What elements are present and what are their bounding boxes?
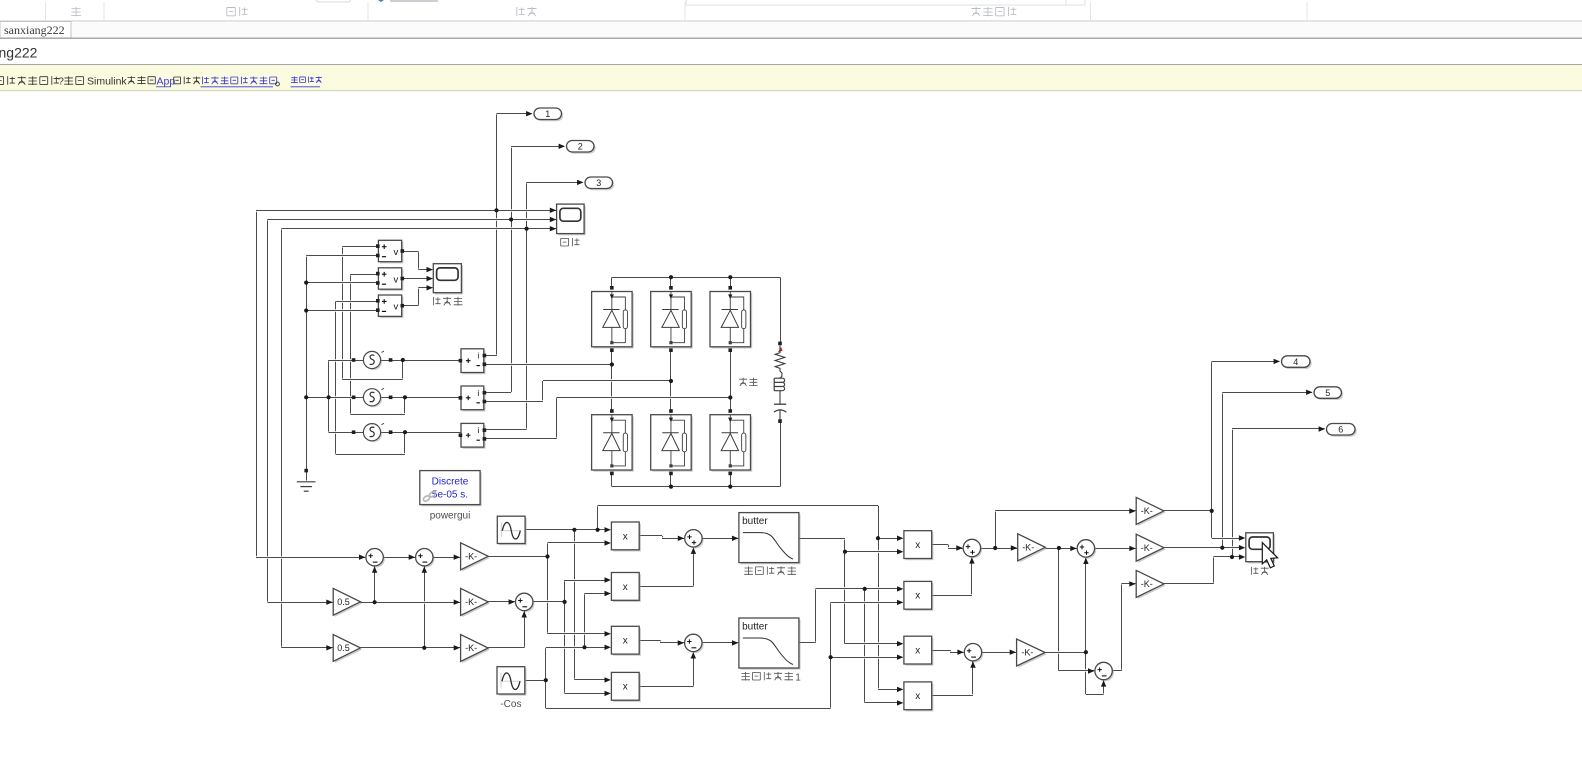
sum C1: [963, 539, 982, 558]
arrow gainK5 in: [1010, 650, 1016, 655]
wire port6 horizontal: [1232, 427, 1325, 430]
ground symbol: [297, 469, 316, 491]
junction gainK5 out: [1084, 650, 1088, 654]
wire VM2+ vertical: [350, 274, 352, 414]
wire AC1 out: [381, 359, 461, 362]
outport 2: [567, 141, 596, 154]
wire sumA1 feedback vertical: [374, 566, 376, 602]
wire VM2 plus lead: [350, 273, 376, 276]
wire AC2 loop up: [404, 397, 406, 414]
wire sumA3 out: [533, 600, 565, 603]
wire port1 vertical: [496, 114, 498, 356]
wire gainKtop out: [1164, 509, 1212, 512]
wire sumD2 in: [1059, 669, 1094, 672]
wire prod8 in1 lead: [878, 688, 900, 691]
arrow scope-voltage in3: [427, 285, 433, 290]
arrow prod4 in1: [605, 677, 611, 682]
svg-text:App: App: [157, 76, 176, 88]
current measurement i1: [459, 349, 487, 374]
wire prod8 in2 lead: [865, 701, 901, 704]
arrow gainK6 in: [1129, 581, 1135, 586]
arrow scope-voltage in2: [427, 276, 433, 281]
svg-text:i: i: [477, 425, 479, 435]
wire prod4 in1 lead: [574, 678, 607, 681]
svg-text:-K-: -K-: [465, 643, 477, 653]
product 1: [611, 522, 640, 552]
product 6: [904, 581, 933, 610]
arrow sumD2 up: [1101, 680, 1106, 686]
svg-text:5: 5: [1325, 388, 1330, 398]
arrow prod8 in1: [897, 687, 903, 692]
arrow gain05a in: [326, 600, 332, 605]
wire prod2 in2 lead: [585, 592, 608, 595]
arrow sumA3 up: [522, 611, 527, 617]
wire gainK2-sumA3: [488, 600, 515, 603]
diode block D3: [710, 286, 752, 352]
outport 4: [1282, 356, 1312, 369]
svg-text:x: x: [623, 682, 628, 693]
arrow scope-jibo in2: [1239, 545, 1245, 550]
arrow sumD1 up: [1083, 558, 1088, 564]
svg-text:Simulink: Simulink: [87, 76, 127, 88]
wire AC3 out: [381, 431, 461, 434]
wire port3 vertical: [526, 182, 528, 429]
junction prod3in2: [582, 645, 586, 649]
arrow into outport2: [559, 144, 565, 149]
outport 1: [534, 108, 563, 121]
wire sumD1-gainKmid: [1095, 547, 1136, 550]
svg-text:5e-05 s.: 5e-05 s.: [432, 490, 468, 501]
arrow sumA2 up: [422, 566, 427, 572]
wire VM3 out seg: [402, 304, 419, 307]
wire port3 horizontal: [527, 181, 583, 184]
wire rect top bus drop2: [670, 277, 672, 288]
arrow gain05b in: [326, 645, 332, 650]
wire sumA2-gainK1: [433, 556, 460, 559]
svg-text:-K-: -K-: [1141, 579, 1153, 589]
junction source-bus/AC2: [327, 395, 331, 399]
wire prod8 up vertical: [972, 661, 974, 696]
label xiangdianya: [434, 297, 463, 306]
outport 5: [1314, 387, 1343, 400]
wire prod4 out: [639, 685, 693, 688]
junction gainK1 out: [545, 554, 549, 558]
wire i1 out seg: [484, 354, 496, 357]
svg-text:x: x: [623, 582, 628, 593]
arrow into outport3: [577, 180, 583, 185]
junction wire1/port1: [494, 208, 498, 212]
svg-text:-K-: -K-: [1141, 506, 1153, 516]
wire sumD2 out riser vertical: [1121, 584, 1123, 671]
sum B1: [685, 530, 704, 549]
junction rect mid1: [610, 362, 614, 366]
arrow gainK4 in: [1011, 545, 1017, 550]
wire butter1 branch vertical: [844, 538, 846, 644]
scope jibo (fundamental scope): [1246, 533, 1275, 564]
current measurement i2: [459, 386, 487, 411]
wire AC2 left lead: [306, 396, 363, 399]
mouse cursor: [1262, 543, 1277, 568]
svg-text:0.5: 0.5: [337, 597, 350, 607]
wire prod7 in2 lead: [831, 656, 901, 659]
svg-text:v: v: [394, 274, 399, 285]
wire gainK6 out: [1164, 582, 1214, 585]
voltage measurement VM2: [376, 268, 404, 291]
wire prod1 out seg: [639, 534, 662, 537]
sum A2: [416, 549, 435, 568]
wire prod3 in1 lead: [548, 632, 608, 635]
wire i2 out seg: [484, 391, 511, 394]
svg-text:-Cos: -Cos: [500, 699, 521, 710]
diode block D1: [592, 286, 634, 352]
wire prod2 out: [639, 585, 693, 588]
arrow sumB1 up: [691, 548, 696, 554]
product 4: [611, 672, 640, 701]
junction top bus 3: [728, 275, 732, 279]
svg-text:3: 3: [596, 178, 601, 188]
wire port4 vertical: [1211, 361, 1213, 538]
arrow prod4 in2: [605, 691, 611, 696]
wire ground stem: [306, 471, 308, 481]
junction AC2 out: [403, 395, 407, 399]
wire prod1 in2 lead: [548, 541, 608, 544]
junction AC1 out: [401, 358, 405, 362]
diode block D6: [710, 409, 752, 475]
wire prod2in2 drop vertical: [584, 594, 586, 648]
outport 3: [585, 177, 614, 190]
powergui block: [420, 471, 482, 507]
arrow sumB2 in: [678, 640, 684, 645]
gain K3: [461, 635, 490, 664]
sum C2: [964, 644, 983, 663]
wire sumB1-butter1: [702, 537, 738, 540]
wire rect mid1 vertical: [611, 351, 613, 412]
wire gainK5 out: [1045, 651, 1086, 654]
svg-text:-K-: -K-: [1141, 543, 1153, 553]
wire prod3 out seg: [639, 639, 660, 642]
wire port6 vertical: [1232, 429, 1234, 557]
arrow prod7 in1: [897, 641, 903, 646]
wire AC1 loop up: [402, 360, 404, 380]
wire gainK6 in: [1121, 582, 1135, 585]
model tab bar: [0, 22, 1582, 39]
wire butter2 out: [799, 641, 816, 644]
wire port5 vertical: [1222, 392, 1224, 547]
label powergui: [430, 511, 471, 522]
arrow gainK1 in: [454, 555, 460, 560]
wire rect bottom bus: [612, 485, 780, 488]
wire port2 vertical: [511, 146, 513, 392]
arrow scope-current in2: [550, 217, 556, 222]
wire VM3 out vertical: [418, 288, 420, 306]
wire prod7-sumC2: [950, 651, 964, 654]
svg-text:0.5: 0.5: [337, 643, 350, 653]
arrow prod5 in1: [897, 536, 903, 541]
wire cos long bottom: [546, 707, 831, 710]
wire AC1 left lead: [329, 359, 364, 362]
scope dianliu (current scope): [557, 204, 586, 235]
svg-text:-K-: -K-: [1022, 543, 1034, 553]
wire VM3+ vertical: [335, 301, 337, 454]
wire rect top bus: [612, 276, 780, 279]
svg-text:2: 2: [578, 141, 583, 151]
svg-text:sanxiang222: sanxiang222: [4, 23, 65, 37]
wire gainKmid out: [1164, 546, 1241, 549]
wire VM1 out seg: [402, 250, 419, 253]
wire VM3 minus lead: [306, 309, 376, 312]
wire prod1-sumB1: [662, 537, 684, 540]
butterworth lowpass filter 1: [739, 513, 801, 565]
wire VM1 scope lead: [418, 268, 432, 271]
svg-text:powergui: powergui: [430, 511, 471, 522]
wire rect bottom bus rise1: [611, 474, 613, 487]
ribbon bottom strip: [0, 0, 1582, 21]
wire i2 minus long: [543, 379, 671, 382]
arrow gainK2 in: [454, 600, 460, 605]
wire VM1 plus lead: [342, 245, 376, 248]
wire prod7 out seg: [932, 649, 950, 652]
gain K top: [1136, 497, 1165, 526]
svg-text:4: 4: [1293, 357, 1298, 367]
wire gainK3 up vertical: [524, 611, 526, 648]
wire prod2 up vertical: [693, 549, 695, 587]
wire neutral vertical: [306, 255, 308, 470]
gain K6: [1136, 570, 1165, 599]
wire butter1 out: [799, 537, 845, 540]
svg-text:-K-: -K-: [1021, 648, 1033, 658]
butterworth lowpass filter 2: [739, 618, 801, 670]
diode block D4: [592, 409, 634, 475]
wire gainK5 riser vertical: [1085, 558, 1087, 694]
wire prod6 out: [932, 594, 972, 597]
wire port2 horizontal: [511, 145, 564, 148]
arrow prod6 in2: [897, 600, 903, 605]
svg-text:i: i: [477, 351, 479, 361]
wire sumB2-butter2: [702, 641, 738, 644]
wire i3 minus long: [557, 396, 731, 399]
junction gainKtop out: [1210, 509, 1214, 513]
wire source-minus bus vertical: [328, 360, 330, 432]
wire gain05a out: [360, 601, 460, 604]
product 8: [904, 682, 933, 711]
junction cos out: [544, 678, 548, 682]
wire gainK3 out: [488, 646, 524, 649]
junction top wire/prod5: [876, 536, 880, 540]
outport 6: [1327, 424, 1357, 437]
wire sumC1 out: [981, 547, 1017, 550]
junction rect mid2: [669, 379, 673, 383]
gain 0.5 b: [333, 635, 362, 664]
sum B2: [685, 634, 704, 653]
arrow gainKmid in: [1129, 546, 1135, 551]
svg-text:v: v: [394, 302, 399, 313]
arrow prod6 in1: [897, 586, 903, 591]
wire scope3 in lead: [1213, 555, 1241, 558]
arrow sumA1 in: [359, 555, 365, 560]
gain 0.5 a: [333, 588, 362, 617]
sine wave source: [497, 516, 527, 545]
junction neutral/source-common: [304, 395, 308, 399]
arrow scope-voltage in1: [427, 267, 433, 272]
svg-text:Discrete: Discrete: [432, 477, 469, 488]
svg-text:-K-: -K-: [465, 597, 477, 607]
wire i2 minus jog vertical: [542, 381, 544, 402]
wire rect top bus drop3: [730, 277, 732, 288]
junction gain05b out: [422, 646, 426, 650]
wire load top vertical: [780, 277, 782, 343]
arrow sumA3 in: [509, 599, 515, 604]
arrow sumC1 in: [956, 545, 962, 550]
arrow sumD2 in: [1088, 668, 1094, 673]
wire sumD2 loop bottom: [1086, 693, 1104, 696]
junction sumC1 out: [993, 546, 997, 550]
product 7: [904, 636, 933, 666]
wire port1 horizontal: [497, 112, 532, 115]
label jibo: [1252, 567, 1269, 575]
arrow sumC1 up: [969, 557, 974, 563]
arrow sumC2 up: [970, 661, 975, 667]
wire sine down branch vertical: [574, 530, 576, 680]
label ditonglvboqi: [744, 566, 796, 575]
wire VM1 minus lead: [306, 254, 376, 257]
wire VM1 out vertical: [418, 251, 420, 269]
svg-text:1: 1: [545, 109, 550, 119]
wire cos out: [526, 679, 546, 682]
gain K2: [461, 588, 490, 617]
wire rect mid3 vertical: [730, 351, 732, 412]
arrow into outport4: [1274, 359, 1280, 364]
wire gainK4 branch vertical: [1058, 548, 1060, 671]
junction AC3 out: [403, 430, 407, 434]
wire prod5 out seg: [932, 543, 948, 546]
label -Cos: [500, 699, 521, 710]
wire sumA3 branch vertical: [564, 580, 566, 693]
wire gainK4 out: [1045, 547, 1076, 550]
AC source 3: [352, 423, 393, 442]
arrow prod3 in1: [605, 631, 611, 636]
arrow sumB1 in: [678, 536, 684, 541]
junction bottom bus 3: [728, 485, 732, 489]
wire current-C main: [282, 227, 557, 230]
junction butter2/prod6: [863, 587, 867, 591]
sum A1: [366, 549, 385, 568]
svg-text:butter: butter: [742, 622, 768, 633]
junction neutral/VM3-: [304, 308, 308, 312]
svg-text:x: x: [623, 531, 628, 542]
gain K5: [1017, 639, 1047, 668]
wire gain05a in: [268, 601, 333, 604]
wire cos right riser vertical: [830, 602, 832, 708]
scope xiangdianya (phase voltage scope): [433, 264, 463, 295]
arrow prod2 in1: [605, 577, 611, 582]
junction wire3/port3: [525, 227, 529, 231]
wire AC3 left lead: [329, 431, 364, 434]
sum A3: [516, 593, 535, 612]
svg-text:x: x: [915, 691, 920, 702]
svg-text:6: 6: [1338, 424, 1343, 434]
arrow prod5 in2: [897, 549, 903, 554]
junction scope3 in: [1230, 555, 1234, 559]
wire butter2 branch down vertical: [864, 589, 866, 703]
wire AC2 loop bottom: [350, 413, 405, 416]
junction wire2/port2: [509, 217, 513, 221]
wire gainK6 out riser vertical: [1213, 557, 1215, 584]
wire cos up branch vertical: [545, 648, 547, 708]
arrow scope-jibo in3: [1239, 554, 1245, 559]
junction rect mid3: [728, 395, 732, 399]
wire sine top branch vertical: [597, 506, 599, 530]
wire rect mid2 vertical: [670, 351, 672, 412]
gain K1: [461, 543, 490, 572]
junction neutral/VM2-: [304, 281, 308, 285]
wire sumC2 out: [982, 651, 1016, 654]
wire top long wire vertical: [878, 506, 880, 690]
svg-text:x: x: [915, 646, 920, 657]
wire i1 minus long: [484, 363, 612, 366]
arrow scope-jibo in1: [1239, 535, 1245, 540]
svg-text:x: x: [915, 591, 920, 602]
wire gainK1 branch vertical: [547, 543, 549, 634]
wire rect top bus drop1: [611, 277, 613, 288]
wire prod2 in1 lead: [565, 579, 608, 582]
gain K mid: [1136, 534, 1165, 563]
series RLC load branch: [774, 342, 787, 423]
wire gain05b out: [360, 646, 460, 649]
product 3: [611, 626, 640, 656]
junction scope2 in: [1220, 546, 1224, 550]
voltage measurement VM1: [376, 240, 404, 263]
wire prod5-sumC1: [948, 547, 963, 550]
junction sumA3 out: [563, 600, 567, 604]
voltage measurement VM3: [376, 295, 404, 318]
wire gain05b in: [282, 646, 333, 649]
breadcrumb bar: [0, 39, 1582, 65]
wire prod8 out: [932, 694, 973, 697]
wire VM2 minus lead: [306, 281, 376, 284]
junction sine A: [572, 528, 576, 532]
AC source 2: [352, 388, 393, 407]
arrow into outport6: [1319, 426, 1325, 431]
label dianliu: [561, 238, 580, 246]
junction top bus 2: [669, 275, 673, 279]
wire current-B left drop: [267, 220, 269, 603]
arrow butter1 in: [732, 536, 738, 541]
wire VM3 plus lead: [336, 300, 376, 303]
product 2: [611, 573, 640, 603]
sum D1: [1077, 540, 1096, 559]
wire sumC1 up-feed horizontal: [995, 509, 1135, 512]
wire scope1 in lead: [1212, 537, 1241, 540]
svg-text:1: 1: [795, 673, 801, 684]
wire sumA1-sumA2: [383, 556, 415, 559]
wire prod4 up vertical: [693, 653, 695, 686]
wire butter2 up vertical: [815, 589, 817, 643]
arrow prod1 in2: [605, 540, 611, 545]
arrow into outport5: [1306, 390, 1312, 395]
wire AC3 loop bottom: [336, 453, 405, 456]
wire sumA1 in: [256, 556, 365, 559]
wire prod7 out jog vertical: [950, 650, 952, 652]
wire prod6 up vertical: [971, 559, 973, 596]
arrow prod7 in2: [897, 655, 903, 660]
wire current-C left drop: [281, 229, 283, 648]
wire prod4 in2 lead: [565, 692, 608, 695]
junction cos-riser/prod7: [829, 655, 833, 659]
arrow gainK3 in: [454, 645, 460, 650]
svg-text:?: ?: [58, 76, 64, 88]
wire prod3 in2 lead: [546, 646, 608, 649]
wire rect bottom bus rise3: [730, 474, 732, 487]
